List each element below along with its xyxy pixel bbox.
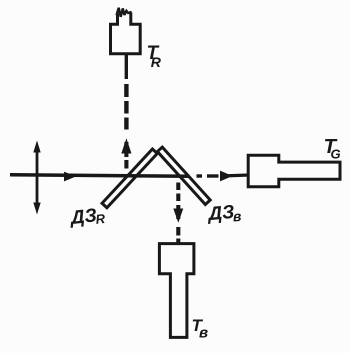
svg-text:в: в — [199, 325, 208, 342]
wire: incoming horizontal beam — [10, 175, 190, 177]
wire: dashed beam down to T_В — [176, 183, 180, 191]
wire: beam to T_G (dash-dot) — [197, 174, 203, 177]
arrowhead on incoming beam — [64, 172, 77, 182]
label ДЗ_В — [206, 201, 243, 226]
object plane double arrow — [36, 147, 39, 207]
arrowhead down to T_В — [173, 209, 183, 223]
wire: dashed beam up to T_R — [124, 84, 128, 97]
svg-text:G: G — [331, 147, 341, 162]
svg-text:ДЗ: ДЗ — [68, 205, 98, 229]
phototube T_В — [159, 244, 194, 338]
svg-text:R: R — [151, 54, 162, 70]
dichroic mirror ДЗ_R — [102, 149, 157, 208]
phototube T_G — [248, 155, 340, 187]
pin of T_R — [125, 54, 128, 79]
arrowhead up to T_R — [121, 138, 131, 153]
svg-text:ДЗ: ДЗ — [206, 202, 236, 225]
dichroic mirror ДЗ_В — [157, 147, 210, 204]
phototube T_R — [111, 12, 141, 53]
broken-off top of T_R (zigzag) — [117, 8, 132, 17]
label ДЗ_R — [68, 204, 107, 229]
arrowhead toward T_G — [220, 171, 233, 182]
